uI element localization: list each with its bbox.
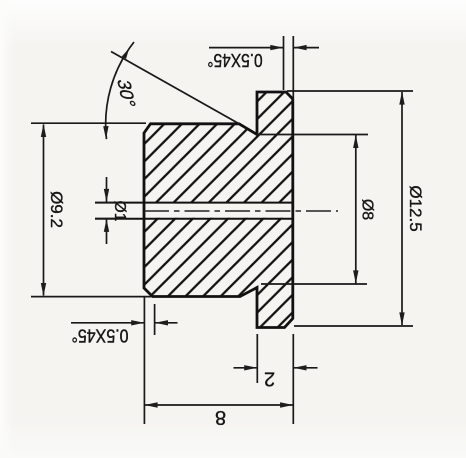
part cross-section (hatched bushing profile) [142, 92, 294, 328]
dimension 8 dimension line [144, 404, 293, 406]
dimension 8 arrowhead left [145, 402, 158, 407]
dimension o8 dimension line [355, 135, 357, 284]
top chamfer arrowhead left [294, 45, 307, 50]
dimension o8 arrowhead up [353, 135, 358, 148]
dimension o12.5 upper extension line [287, 90, 413, 92]
svg-text:8: 8 [215, 406, 226, 428]
dimension o9.2 lower extension line [31, 296, 151, 298]
dimension o1 dimension line upper tail [106, 177, 108, 202]
bore hole upper line [95, 202, 293, 204]
dimension 2 dimension line left tail [234, 367, 258, 369]
svg-text:Ø8: Ø8 [359, 199, 376, 220]
dimension 2 dimension line right tail [294, 367, 318, 369]
bottom chamfer arrowhead left [155, 320, 168, 325]
dimension 2 arrowhead left [294, 365, 307, 370]
bottom chamfer dimension line left tail [71, 322, 144, 324]
dimension o9.2 arrowhead up [41, 124, 46, 137]
angular dimension 30deg arrowhead upper [122, 48, 130, 58]
dimension 2 left extension line [256, 334, 258, 383]
dimension 8 left extension line [143, 297, 145, 424]
dimension 2 / 8 shared right extension line [292, 334, 294, 424]
svg-text:0.5X45°: 0.5X45° [71, 325, 128, 347]
svg-text:0.5X45°: 0.5X45° [207, 49, 262, 69]
centerline (dash-dot axis) [144, 210, 338, 212]
dimension o1 arrowhead up [104, 219, 109, 232]
bottom chamfer arrowhead right [131, 320, 144, 325]
dimension o9.2 arrowhead down [41, 283, 46, 296]
svg-text:Ø12.5: Ø12.5 [406, 185, 425, 231]
svg-text:Ø9.2: Ø9.2 [47, 191, 66, 228]
dimension o8 lower extension line [261, 283, 367, 285]
bore hole lower line [95, 218, 293, 220]
dimension o12.5 arrowhead up [399, 91, 404, 104]
dimension 8 arrowhead right [280, 402, 293, 407]
dimension o8 arrowhead down [353, 270, 358, 283]
dimension o9.2 dimension line [43, 125, 45, 296]
dimension o1 dimension line lower tail [106, 219, 108, 244]
dimension o1 arrowhead down [104, 189, 109, 202]
bottom chamfer dimension line right tail [155, 322, 177, 324]
top chamfer dimension line left tail [209, 47, 283, 49]
angular dimension 30deg arrowhead lower [103, 126, 108, 139]
dimension o12.5 lower extension line [294, 325, 413, 327]
dimension o8 upper extension line [257, 134, 368, 136]
dimension 2 arrowhead right [244, 365, 257, 370]
dimension o12.5 dimension line [401, 92, 403, 325]
svg-text:Ø1: Ø1 [111, 201, 128, 222]
dimension o1 lower extension line [95, 218, 126, 220]
dimension o1 upper extension line [95, 202, 126, 204]
top chamfer dimension line right tail [294, 47, 319, 49]
top chamfer dimension left extension line [283, 36, 285, 90]
dimension o12.5 arrowhead down [399, 312, 404, 325]
svg-text:2: 2 [264, 368, 275, 390]
top chamfer arrowhead right [270, 45, 283, 50]
top chamfer dimension right extension line [292, 36, 294, 98]
bottom chamfer dimension extension tick [154, 304, 156, 335]
dimension o9.2 upper extension line [31, 122, 146, 124]
angular dimension 30deg arc [106, 42, 134, 139]
angular dimension 30deg leader line [111, 52, 240, 125]
